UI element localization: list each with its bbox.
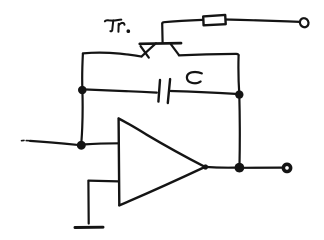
resistor R	[203, 15, 226, 25]
wire node D to output terminal	[244, 167, 283, 169]
node A	[77, 141, 86, 150]
capacitor C	[158, 79, 170, 103]
wire op-amp minus input	[88, 180, 118, 183]
ground	[75, 226, 103, 229]
wire collector to resistor	[162, 20, 202, 24]
terminal top right	[298, 17, 310, 29]
input lead dashes	[22, 139, 30, 141]
wire emitter to right rail	[179, 54, 239, 56]
label C	[187, 72, 202, 83]
node D	[235, 163, 245, 173]
wire ground stem	[87, 181, 89, 224]
output terminal	[283, 164, 290, 171]
node B	[78, 86, 87, 95]
wire base (rail corner to transistor)	[83, 53, 142, 57]
node C	[235, 90, 243, 98]
wire node A to op-amp plus input	[85, 143, 119, 144]
transistor Tr.	[140, 24, 181, 58]
wire resistor to terminal	[226, 20, 300, 22]
wire capacitor right	[171, 91, 236, 94]
wire capacitor left	[87, 90, 157, 93]
wire input to node A	[30, 141, 77, 145]
op-amp apex junction blob	[203, 164, 208, 169]
wire right rail	[238, 55, 239, 165]
label Tr.	[105, 20, 130, 33]
op-amp U1	[119, 119, 205, 206]
wire left rail	[81, 54, 83, 142]
wire op-amp output to node D	[205, 166, 235, 169]
